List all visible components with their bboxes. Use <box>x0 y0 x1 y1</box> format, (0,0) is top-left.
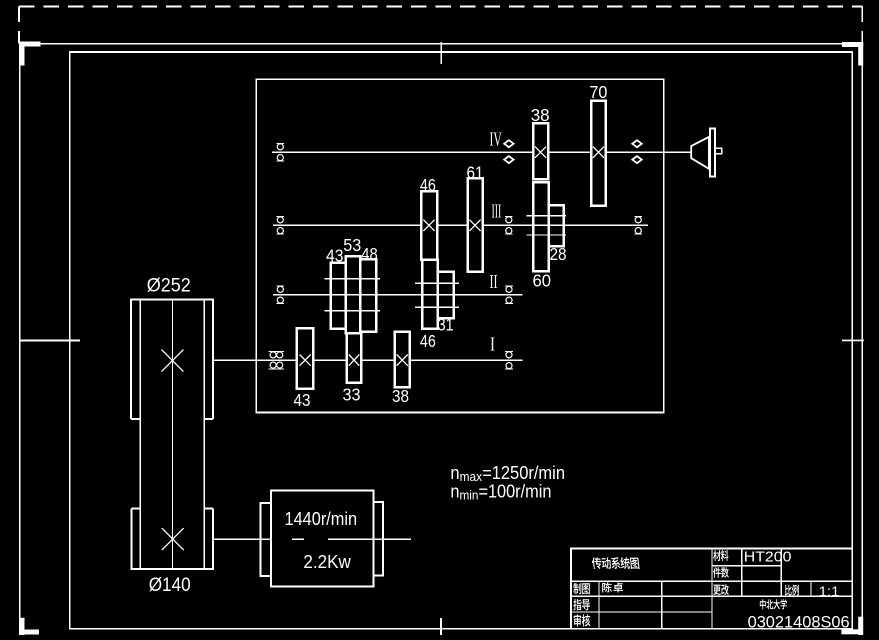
gear 61 on shaft III <box>468 178 483 272</box>
svg-text:HT200: HT200 <box>744 549 792 566</box>
gearbox housing box <box>256 79 664 412</box>
label jianshu (quantity) <box>713 567 729 578</box>
label zhidao (advisor) <box>573 599 590 610</box>
svg-text:03021408S06: 03021408S06 <box>748 612 850 631</box>
gear 48 of cluster on shaft II <box>360 259 376 331</box>
title text chuandong xitongtu <box>591 557 639 569</box>
svg-text:I: I <box>490 334 495 356</box>
corner trim mark bottom-right <box>841 617 863 635</box>
pulley 140 rim <box>131 508 213 568</box>
svg-text:2.2Kw: 2.2Kw <box>303 552 351 572</box>
gear 38 on shaft IV <box>533 123 548 179</box>
motor left end cap <box>260 503 271 576</box>
svg-text:53: 53 <box>343 235 361 255</box>
outer dashed paper border <box>19 7 863 44</box>
svg-text:61: 61 <box>467 163 484 183</box>
svg-text:Ø252: Ø252 <box>147 276 191 297</box>
svg-text:43: 43 <box>294 390 311 410</box>
svg-text:60: 60 <box>533 271 552 291</box>
centering tick bottom <box>440 618 442 635</box>
gear 46 on shaft III <box>421 191 437 260</box>
svg-text:Ø140: Ø140 <box>149 575 191 596</box>
school zhongbei daxue <box>760 599 787 609</box>
shaft IV <box>272 151 691 153</box>
corner trim mark top-right <box>842 42 863 66</box>
bearing shaft II left <box>276 286 284 304</box>
bearing shaft IV left <box>276 143 284 161</box>
svg-text:1:1: 1:1 <box>819 583 840 599</box>
bearing shaft I right <box>505 351 513 369</box>
output coupling cone <box>691 137 709 169</box>
svg-text:IV: IV <box>490 128 503 150</box>
svg-text:38: 38 <box>531 105 550 125</box>
hub lines of pair 60-28 <box>527 216 567 235</box>
svg-text:38: 38 <box>392 386 409 406</box>
hub lines of pair 46-31 <box>415 283 459 307</box>
svg-text:70: 70 <box>589 82 607 102</box>
bearing shaft III mid <box>505 216 513 234</box>
bearing shaft III left <box>276 216 284 234</box>
pulley 252 rim <box>131 300 213 420</box>
motor shaft line <box>213 538 411 540</box>
shaft III <box>273 224 648 226</box>
gear 43 of cluster on shaft II <box>331 263 346 329</box>
svg-text:43: 43 <box>326 245 344 265</box>
gear 28 on shaft III <box>549 205 564 246</box>
label genggai (revision) <box>713 584 729 595</box>
pulley 252 cross mark <box>162 350 184 372</box>
bearing shaft III right <box>634 216 642 234</box>
bearing shaft II right <box>505 286 513 304</box>
bearing shaft IV right (diamond) <box>632 140 641 163</box>
label zhitu (drawn by) <box>573 583 590 594</box>
centering tick left <box>20 340 81 342</box>
title block grid <box>570 547 852 629</box>
belt lines <box>140 300 204 569</box>
gear 46 on shaft II <box>422 260 438 329</box>
gear 53 of cluster on shaft II <box>346 256 361 333</box>
svg-text:II: II <box>490 271 498 293</box>
motor right end cap <box>374 502 384 576</box>
gear 31 on shaft II <box>438 272 454 318</box>
corner trim mark top-left <box>20 42 41 66</box>
bearing shaft I left (double) <box>269 352 284 369</box>
output coupling stub <box>715 148 721 154</box>
svg-text:46: 46 <box>420 175 436 195</box>
hub lines of cluster 43-53-48 <box>325 279 380 311</box>
svg-text:28: 28 <box>550 244 567 264</box>
motor body <box>271 490 374 586</box>
svg-text:III: III <box>492 200 502 222</box>
gear 33 on shaft I <box>347 333 361 382</box>
svg-text:46: 46 <box>420 331 436 351</box>
label cailiao (material) <box>713 550 728 561</box>
label shenhe (checked) <box>574 614 591 626</box>
centering tick right <box>842 339 864 341</box>
centering tick top <box>440 42 442 64</box>
gear 43 on shaft I <box>297 328 313 389</box>
pulley 140 cross mark <box>162 528 184 550</box>
corner trim mark bottom-left <box>20 618 40 635</box>
pulley centre axis line <box>171 300 173 569</box>
bearing shaft IV mid (diamond) <box>504 140 513 163</box>
name chen zhuo <box>602 582 623 592</box>
svg-text:31: 31 <box>438 315 454 335</box>
gear 38 on shaft I <box>395 332 410 387</box>
svg-text:33: 33 <box>343 385 361 405</box>
output coupling flange <box>710 128 715 176</box>
svg-text:48: 48 <box>361 244 378 264</box>
shaft II <box>273 294 523 296</box>
gear 60 on shaft IV <box>533 182 549 271</box>
gear 70 on shaft IV <box>591 101 606 206</box>
label bili (scale) <box>785 585 799 596</box>
svg-text:1440r/min: 1440r/min <box>285 509 358 529</box>
shaft I <box>213 359 522 361</box>
